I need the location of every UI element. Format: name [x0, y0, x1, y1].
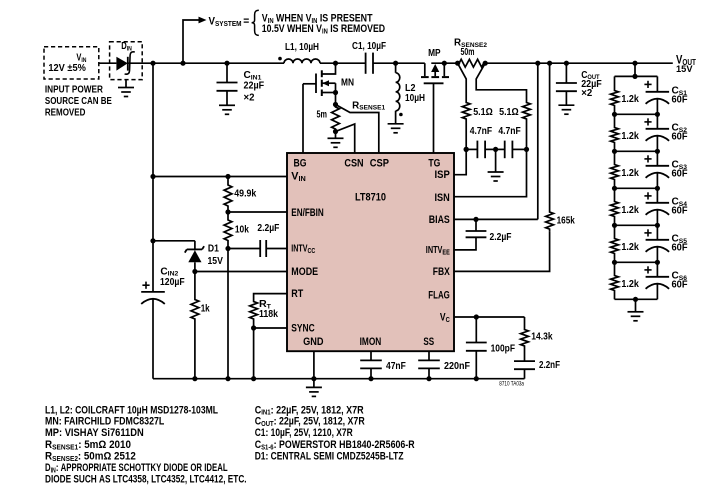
node stack row 3	[615, 187, 658, 189]
diode DIN box (dashed)	[110, 42, 143, 80]
svg-text:1.2k: 1.2k	[621, 242, 639, 253]
wire VC pin	[454, 316, 525, 318]
svg-text:INTV: INTV	[291, 243, 308, 254]
svg-text:SENSE1: SENSE1	[52, 443, 78, 452]
resistor 49.9k	[225, 174, 230, 179]
svg-text:SENSE1: SENSE1	[359, 105, 385, 112]
svg-text:C: C	[160, 266, 167, 277]
wire kelvin right to 5.1 ohm	[476, 63, 526, 100]
svg-text:×2: ×2	[581, 88, 592, 99]
svg-text:60F: 60F	[672, 279, 688, 290]
svg-text:60F: 60F	[672, 168, 688, 179]
svg-text:5.1Ω: 5.1Ω	[473, 107, 493, 118]
svg-text:: POWERSTOR HB1840-2R5606-R: : POWERSTOR HB1840-2R5606-R	[274, 439, 415, 451]
svg-text:: 22µF, 25V, 1812, X7R: : 22µF, 25V, 1812, X7R	[274, 416, 365, 428]
wire SYNC pin	[254, 327, 287, 329]
svg-text:22µF: 22µF	[244, 80, 265, 91]
wire SYNC column down	[253, 328, 255, 379]
svg-text:: 50mΩ 2512: : 50mΩ 2512	[78, 451, 136, 463]
node EN/FBIN tee	[225, 209, 230, 214]
resistor 14.3k	[524, 317, 526, 327]
svg-text:12V ±5%: 12V ±5%	[48, 63, 86, 74]
wire VOUT rail	[431, 62, 457, 64]
wire VIN box to DIN	[99, 62, 117, 64]
capacitor C1	[365, 53, 367, 74]
ground below L2	[388, 123, 404, 125]
svg-text:BG: BG	[294, 157, 307, 169]
svg-text:INPUT POWER: INPUT POWER	[45, 84, 103, 95]
supercap stack top split	[632, 61, 637, 66]
resistor 1.2k #5	[614, 225, 616, 236]
svg-text:IN: IN	[299, 174, 306, 183]
svg-text:MODE: MODE	[291, 266, 318, 278]
svg-text:1.2k: 1.2k	[621, 279, 639, 290]
svg-text:C: C	[244, 70, 251, 81]
svg-text:MP: VISHAY Si7611DN: MP: VISHAY Si7611DN	[45, 427, 144, 439]
capacitor CS3 60F	[656, 151, 658, 166]
svg-text:49.9k: 49.9k	[234, 188, 257, 199]
ground below DIN	[125, 80, 127, 88]
svg-text:4.7nF: 4.7nF	[470, 126, 492, 137]
wire stack bottom	[615, 298, 658, 300]
capacitor CIN1	[226, 63, 228, 82]
ground below COUT	[558, 104, 574, 106]
node MN drain	[333, 61, 338, 66]
node stack row 5	[615, 261, 658, 263]
op-amp U1 --- IC LT8710 body	[287, 153, 454, 351]
svg-text:FBX: FBX	[433, 266, 451, 278]
capacitor 2.2uF BIAS	[473, 217, 478, 222]
svg-text:TG: TG	[428, 157, 440, 169]
svg-text:IS REMOVED: IS REMOVED	[328, 23, 385, 35]
capacitor 2.2uF INTVCC	[228, 248, 260, 250]
svg-text:: 5mΩ 2010: : 5mΩ 2010	[78, 439, 131, 451]
wire DIN to input node	[128, 62, 284, 64]
capacitor CS4 60F	[656, 188, 658, 203]
wire C1 to L2 node	[373, 62, 425, 64]
capacitor 47nF IMON	[370, 351, 372, 360]
input source VIN box (dashed)	[44, 47, 99, 79]
svg-text:C1, 10µF: C1, 10µF	[352, 41, 386, 52]
node VIN tee	[150, 174, 155, 179]
svg-text:D1: D1	[208, 244, 220, 255]
svg-text:15V: 15V	[208, 256, 224, 267]
svg-text:1.2k: 1.2k	[621, 168, 639, 179]
resistor 1.2k #1	[614, 76, 616, 88]
svg-text:ISP: ISP	[435, 169, 450, 181]
wire L1 to C1	[320, 62, 366, 64]
wire ISN	[524, 147, 529, 152]
wire VOUT to BIAS	[535, 61, 540, 66]
svg-text:14.3k: 14.3k	[531, 332, 553, 343]
wire kelvin to CSP	[336, 105, 379, 154]
svg-text:LT8710: LT8710	[355, 191, 386, 203]
resistor 1.2k #2	[614, 114, 616, 125]
wire left rail input	[152, 63, 154, 292]
svg-text:60F: 60F	[672, 131, 688, 142]
svg-text:×2: ×2	[244, 93, 255, 104]
svg-text:50m: 50m	[461, 47, 475, 58]
capacitor 100pF	[475, 317, 477, 343]
diode DIN (ideal diode symbol)	[116, 57, 127, 71]
svg-text:MN: FAIRCHILD FDMC8327L: MN: FAIRCHILD FDMC8327L	[45, 416, 165, 428]
resistor 5.1 ohm left	[462, 100, 470, 122]
svg-text:10k: 10k	[235, 225, 250, 236]
svg-text:220nF: 220nF	[444, 361, 470, 372]
svg-text:4.7nF: 4.7nF	[498, 126, 520, 137]
svg-text:L1, 10µH: L1, 10µH	[285, 42, 319, 53]
node stack row 4	[615, 224, 658, 226]
svg-text:IMON: IMON	[360, 336, 382, 348]
svg-text:100pF: 100pF	[491, 343, 515, 354]
svg-text:EE: EE	[442, 247, 449, 256]
svg-text:118k: 118k	[259, 309, 279, 320]
resistor 1k	[194, 272, 196, 298]
wire bottom ground rail	[153, 378, 525, 380]
ground below 4.7nF	[495, 149, 497, 172]
ground below CIN1	[219, 104, 235, 106]
resistor 1.2k #4	[614, 188, 616, 199]
ground below RSENSE1	[335, 132, 337, 139]
inductor L2	[395, 63, 397, 73]
svg-text:1.2k: 1.2k	[621, 131, 639, 142]
svg-text:165k: 165k	[557, 215, 576, 226]
capacitor CS6 60F	[656, 262, 658, 277]
node stack row 1	[615, 113, 658, 115]
inductor L1	[284, 59, 320, 63]
svg-text:CSN: CSN	[344, 157, 363, 169]
resistor 5.1 ohm right	[523, 100, 531, 122]
svg-text:IN1: IN1	[261, 408, 270, 417]
svg-text:SYSTEM: SYSTEM	[215, 19, 242, 28]
capacitor CS5 60F	[656, 225, 658, 240]
svg-text:GND: GND	[303, 336, 323, 348]
svg-text:INTV: INTV	[426, 245, 443, 256]
svg-text:60F: 60F	[672, 94, 688, 105]
svg-text:IN: IN	[127, 45, 132, 52]
svg-text:SYNC: SYNC	[291, 323, 314, 335]
resistor RSENSE1 5m	[333, 102, 338, 107]
svg-text:5m: 5m	[317, 110, 328, 121]
svg-text:D1: CENTRAL SEMI CMDZ5245B-LTZ: D1: CENTRAL SEMI CMDZ5245B-LTZ	[255, 451, 404, 463]
arrow to VSYSTEM	[183, 20, 199, 63]
svg-text:60F: 60F	[672, 205, 688, 216]
node C1/L2 junction	[393, 61, 398, 66]
resistor 165k	[547, 61, 552, 66]
svg-text:C1: 10µF, 25V, 1210, X7R: C1: 10µF, 25V, 1210, X7R	[255, 427, 353, 439]
node SYNC tee	[251, 325, 256, 330]
svg-text:10µH: 10µH	[405, 93, 425, 104]
zener diode D1 15V	[153, 240, 195, 242]
svg-text:: APPROPRIATE SCHOTTKY DIODE O: : APPROPRIATE SCHOTTKY DIODE OR IDEAL	[56, 462, 228, 474]
wire ISP	[464, 147, 469, 152]
wire 165k to FBX	[454, 232, 550, 272]
capacitor 220nF SS	[428, 351, 430, 360]
svg-text:L1, L2: COILCRAFT 10µH MSD1278: L1, L2: COILCRAFT 10µH MSD1278-103ML	[45, 404, 218, 416]
ground below stack	[628, 311, 644, 313]
svg-text:5.1Ω: 5.1Ω	[499, 107, 519, 118]
svg-text:DIODE SUCH AS LTC4358, LTC4352: DIODE SUCH AS LTC4358, LTC4352, LTC4412,…	[45, 473, 247, 485]
node stack row 2	[615, 150, 658, 152]
transistor MN (NMOS)	[303, 83, 316, 85]
capacitor COUT	[564, 61, 569, 66]
svg-text:BIAS: BIAS	[429, 214, 450, 226]
capacitor 4.7nF left	[464, 147, 469, 152]
resistor 1.2k #6	[614, 262, 616, 273]
wire MODE pin	[195, 271, 287, 273]
svg-text:1.2k: 1.2k	[621, 205, 639, 216]
node input junction	[150, 61, 155, 66]
svg-text:CC: CC	[308, 246, 316, 255]
capacitor 4.7nF right	[493, 147, 498, 152]
svg-text:8710 TA03a: 8710 TA03a	[499, 381, 524, 388]
node MODE/D1	[192, 269, 197, 274]
ground below GND pin	[306, 386, 322, 388]
svg-text:R: R	[352, 100, 359, 111]
svg-text:C: C	[446, 315, 451, 324]
svg-text:EN/FBIN: EN/FBIN	[291, 207, 324, 219]
resistor 1.2k #3	[614, 151, 616, 162]
transistor MP (PMOS)	[424, 63, 426, 76]
svg-text:FLAG: FLAG	[428, 289, 450, 301]
svg-text:2.2µF: 2.2µF	[490, 232, 512, 243]
svg-text:CSP: CSP	[370, 157, 389, 169]
svg-text:120µF: 120µF	[160, 277, 185, 288]
wire ground column	[227, 249, 229, 379]
wire kelvin to CSN	[336, 124, 355, 153]
svg-text:10.5V WHEN V: 10.5V WHEN V	[262, 23, 323, 35]
capacitor CS2 60F	[656, 114, 658, 129]
svg-text:SS: SS	[423, 336, 434, 348]
svg-text:: 22µF, 25V, 1812, X7R: : 22µF, 25V, 1812, X7R	[271, 404, 364, 416]
capacitor 2.2nF	[524, 349, 526, 362]
wire VIN pin	[153, 176, 287, 178]
resistor RSENSE2 50m	[455, 61, 460, 66]
svg-text:SOURCE CAN BE: SOURCE CAN BE	[45, 96, 112, 107]
svg-text:15V: 15V	[676, 64, 693, 75]
svg-text:47nF: 47nF	[386, 361, 406, 372]
wire TG to MP gate	[433, 83, 435, 153]
svg-text:2.2µF: 2.2µF	[257, 223, 279, 234]
svg-text:ISN: ISN	[435, 192, 450, 204]
svg-text:RT: RT	[291, 288, 303, 300]
svg-text:1k: 1k	[201, 304, 211, 315]
svg-text:=: =	[243, 16, 249, 28]
wire GND pin	[313, 351, 315, 379]
resistor RT 118k	[254, 294, 287, 299]
svg-text:60F: 60F	[672, 242, 688, 253]
svg-text:MP: MP	[428, 48, 441, 59]
wire kelvin left to 5.1 ohm	[458, 63, 467, 100]
resistor 10k	[227, 212, 229, 220]
wire BG to MN gate	[302, 84, 304, 153]
node D1 tee	[150, 238, 155, 243]
svg-text:MN: MN	[341, 77, 354, 88]
node INTVCC tee	[225, 246, 230, 251]
wire EN/FBIN pin	[228, 211, 287, 213]
svg-text:1.2k: 1.2k	[621, 94, 639, 105]
capacitor CIN2	[141, 291, 165, 293]
svg-text:REMOVED: REMOVED	[45, 107, 86, 118]
capacitor CS1 60F	[656, 76, 658, 91]
svg-text:2.2nF: 2.2nF	[539, 360, 560, 371]
